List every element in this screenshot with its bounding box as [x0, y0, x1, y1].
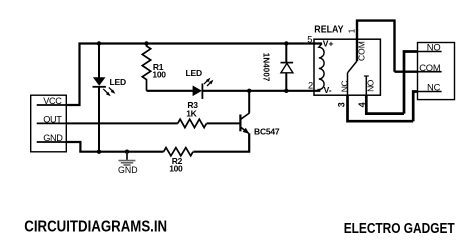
J1 pin VCC line [37, 104, 67, 106]
svg-text:1: 1 [348, 28, 357, 33]
ground symbol [119, 152, 136, 165]
wire LED D2 cathode down to ground rail [98, 87, 100, 152]
resistor R3 (horizontal zigzag on OUT line) [178, 119, 207, 127]
connector J2 box (NO/COM/NC) [418, 43, 455, 100]
wire relay pin 4 (NO) down and right [366, 95, 404, 113]
resistor R1 (vertical zigzag) [142, 44, 150, 91]
wire VCC rail (J1 VCC up to top rail, across to relay V+) [66, 44, 322, 106]
J2 pin NO line [418, 51, 442, 53]
diode D1 1N4007 (flyback, cathode up) [281, 63, 294, 73]
relay switch arm (COM pivot to NC) [348, 61, 358, 73]
node junction diode D1 top [284, 41, 288, 45]
wire GND from J1 down to ground rail [66, 142, 80, 152]
node junction diode D1 bottom [284, 89, 288, 93]
svg-text:RELAY: RELAY [314, 25, 343, 36]
svg-text:GND: GND [118, 165, 138, 175]
svg-text:ELECTRO GADGET: ELECTRO GADGET [344, 220, 456, 237]
svg-text:5: 5 [307, 35, 312, 45]
relay coil L1 [319, 44, 324, 91]
node junction Q1 collector on lower rail [247, 89, 251, 93]
ground symbol junction dot [125, 150, 129, 154]
wire D1 top branch [285, 44, 287, 63]
J1 pin GND line [37, 141, 67, 143]
wire lower rail from LED D3 to relay V- [202, 90, 320, 92]
relay NO contact [364, 76, 369, 95]
svg-text:NC: NC [340, 81, 350, 93]
svg-text:BC547: BC547 [254, 126, 280, 136]
wire OUT to R3 [66, 122, 177, 124]
wire relay COM pin up and over to connector COM [357, 21, 395, 72]
resistor R2 (horizontal zigzag on ground rail) [164, 148, 193, 156]
svg-text:V-: V- [324, 85, 332, 95]
wire ground rail right segment (R2 to Q1 emitter) [193, 133, 249, 152]
relay K1 box [314, 39, 380, 95]
J2 pin COM line [418, 71, 442, 73]
svg-text:LED: LED [186, 68, 202, 78]
J2 pin NC line [418, 91, 442, 93]
node junction on top rail at R1 [144, 41, 148, 45]
svg-text:CIRCUITDIAGRAMS.IN: CIRCUITDIAGRAMS.IN [24, 219, 167, 236]
svg-text:LED: LED [110, 77, 126, 87]
wire R3 to Q1 base [207, 122, 240, 124]
connector J1 box (VCC/OUT/GND) [31, 95, 67, 152]
wire Q1 collector up to lower rail [248, 91, 250, 113]
wire NC riser to connector NC [413, 92, 417, 122]
wire ground rail left segment [79, 151, 163, 153]
wire lower rail from R1 to LED D3 [147, 90, 193, 92]
svg-text:3: 3 [337, 102, 347, 107]
node junction on top rail at LED D2 branch [97, 41, 101, 45]
svg-text:1N4007: 1N4007 [261, 53, 270, 82]
transistor Q1 BC547 [240, 113, 249, 134]
LED D3 (horizontal, pointing right) [193, 78, 214, 99]
svg-text:100: 100 [152, 69, 166, 79]
wire NO riser to connector NO [404, 52, 418, 114]
wire relay pin 3 (NC) down and right [348, 95, 414, 121]
svg-text:1K: 1K [186, 109, 197, 119]
svg-text:NO: NO [366, 79, 376, 92]
svg-text:V+: V+ [323, 39, 334, 49]
wire COM into connector [395, 70, 418, 72]
wire LED D2 branch upper [98, 44, 100, 78]
LED D2 (vertical, pointing down) [93, 77, 116, 96]
wire D1 bottom branch [285, 73, 287, 91]
J1 pin OUT line [37, 122, 67, 124]
relay NC contact [347, 73, 349, 95]
svg-text:100: 100 [169, 164, 183, 174]
node junction LED D2 to ground rail [97, 150, 101, 154]
svg-text:2: 2 [308, 81, 313, 91]
